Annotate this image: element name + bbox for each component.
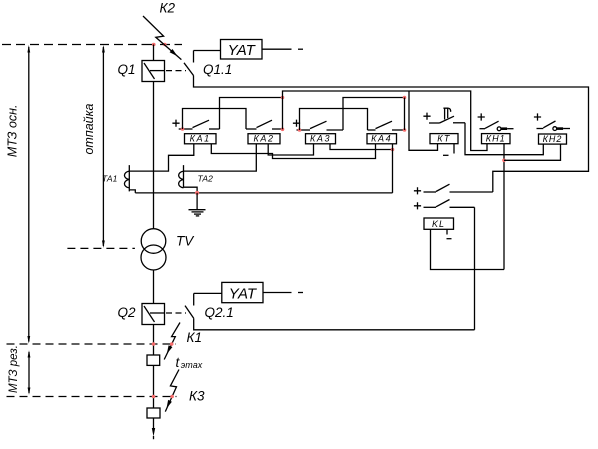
minus terminal (KT) <box>443 154 449 156</box>
wire: KH1 junction to KH2 right lead <box>504 144 561 160</box>
svg-text:отпайка: отпайка <box>82 103 96 154</box>
aux contact Q2.1 <box>185 293 194 318</box>
node: KA4 right lead junction <box>391 148 395 152</box>
node: KA1 left terminal <box>181 127 185 131</box>
trip coil YAT (Q2) <box>222 282 263 302</box>
svg-text:Q2: Q2 <box>117 305 136 320</box>
node: bus-feeder junction <box>152 43 156 47</box>
fault flash K3 <box>165 370 179 412</box>
dimension arrow MTZ rez <box>28 350 31 395</box>
node: KA2 right terminal <box>281 128 285 132</box>
time relay coil KT <box>430 134 458 144</box>
fault flash K1 <box>164 323 180 360</box>
relay coil KA2 <box>248 134 280 144</box>
wire: KA1 right lead to KA4 left lead <box>211 144 375 159</box>
wire: KA4 right terminal drop <box>404 98 406 131</box>
svg-text:КА2: КА2 <box>253 134 274 144</box>
minus terminal (YAT Q1) <box>298 48 303 50</box>
plus terminal (KL contact 1) <box>414 187 421 194</box>
contact KA1 <box>179 120 220 129</box>
svg-text:Q1.1: Q1.1 <box>203 62 232 77</box>
current transformer TA2 <box>179 165 197 193</box>
wire: YAT2 to minus terminal <box>263 292 292 294</box>
wire: CT common return <box>135 192 392 194</box>
wire: KA2 left lead to TA2 <box>184 144 257 171</box>
wire: feeder from Q1 to TV <box>153 82 155 230</box>
dashed boundary line (MTZ rez) <box>7 396 177 398</box>
svg-text:KL: KL <box>432 219 445 229</box>
node: K3 flash crossing <box>170 395 174 399</box>
busbar (dashed) <box>2 44 140 46</box>
ground <box>189 193 206 216</box>
wire: trip rail from Q1.1 around right side to KL contact <box>194 76 589 193</box>
trip coil YAT (Q1) <box>221 40 263 60</box>
minus terminal (YAT Q2) <box>298 292 303 294</box>
svg-text:КН1: КН1 <box>486 134 506 144</box>
plus terminal (KT) <box>423 113 430 120</box>
minus terminal (KL) <box>447 238 452 240</box>
node: KA3 left terminal <box>298 128 302 132</box>
relay box 2 <box>147 408 160 418</box>
plus terminal (KH2) <box>534 113 541 120</box>
svg-text:МТЗ рез.: МТЗ рез. <box>8 345 20 393</box>
mechanical link Q1 to Q1.1 <box>166 70 186 72</box>
node: feeder dashed1 crossing <box>152 342 156 346</box>
svg-text:эmax: эmax <box>181 360 203 370</box>
svg-text:TV: TV <box>176 233 195 248</box>
node: bus-K2 junction <box>163 43 167 47</box>
fault flash K2 <box>143 16 181 60</box>
wire: KL coil left lead loop to KH1 lead <box>431 229 505 269</box>
node: KA4 right bridge junction <box>403 96 407 100</box>
contact KH1 (signal relay) <box>480 121 514 131</box>
relay coil KA1 <box>185 134 217 144</box>
wire: KT right lead <box>453 144 455 154</box>
wire: feeder from bus to Q1 <box>153 45 155 61</box>
node: feeder dashed2 crossing <box>152 395 156 399</box>
wire: KA3 right lead to KA4 right lead <box>330 144 393 150</box>
wire: KA3-KA4 left bridge <box>300 109 368 131</box>
wire: feeder Q2 to end <box>153 325 155 356</box>
node: KA4 right terminal <box>403 128 407 132</box>
dimension arrow otpayka <box>102 45 105 248</box>
svg-text:КА4: КА4 <box>371 134 392 144</box>
plus terminal (KL contact 2) <box>414 202 421 209</box>
svg-text:КА1: КА1 <box>190 134 211 144</box>
wire: KL coil right lead <box>446 229 448 234</box>
wire: tap to KT coil <box>409 91 438 150</box>
wire: KA4 right lead to common <box>392 144 394 193</box>
current transformer TA1 <box>124 165 135 193</box>
wire: KA2 right lead to KA3 left lead <box>268 144 313 155</box>
intermediate relay coil KL <box>424 218 454 229</box>
dashed boundary line (MTZ osn) <box>7 343 177 345</box>
wire: KT contact output to KH2 coil <box>465 123 543 155</box>
contact KL.2 <box>424 200 475 208</box>
mechanical link Q2 to Q2.1 <box>166 312 186 314</box>
node: KH1 right lead junction <box>502 159 506 163</box>
wire: YAT to minus terminal <box>262 48 292 50</box>
svg-text:К1: К1 <box>187 330 202 345</box>
node: KA2 right terminal junction <box>281 96 285 100</box>
plus terminal (KA3/KA4 group) <box>293 120 300 127</box>
contact KA4 <box>368 121 405 130</box>
wire: KA contacts to KT coil (line-2) <box>283 91 488 151</box>
svg-text:ТА1: ТА1 <box>102 174 118 184</box>
svg-text:ТА2: ТА2 <box>198 174 214 184</box>
node: K1 flash crossing <box>170 342 174 346</box>
relay coil KA4 <box>367 134 397 144</box>
svg-text:КН2: КН2 <box>543 134 563 144</box>
breaker Q1 <box>142 61 165 82</box>
dashed line (otpayka boundary) <box>67 247 134 249</box>
wire: feeder outgoing arrow <box>152 418 155 439</box>
aux contact Q1.1 <box>184 51 194 76</box>
dimension arrow MTZ osn <box>27 45 30 344</box>
wire: KA1 left lead to TA1 <box>129 144 194 171</box>
contact KA2 <box>246 120 283 129</box>
plus terminal (KH1) <box>478 113 485 120</box>
svg-text:К2: К2 <box>160 1 176 16</box>
contact KH2 (signal relay) <box>537 121 571 131</box>
wire: Q1.1 to YAT coil <box>194 50 221 52</box>
svg-text:Q1: Q1 <box>117 62 135 77</box>
contact KA3 <box>297 121 344 130</box>
breaker Q2 <box>142 304 165 325</box>
svg-text:К3: К3 <box>189 388 205 403</box>
svg-text:YAT: YAT <box>228 42 257 59</box>
signal relay coil KH2 <box>539 134 567 144</box>
voltage transformer TV <box>141 229 166 270</box>
svg-text:Q2.1: Q2.1 <box>205 305 234 320</box>
contact KT (with time delay) <box>429 108 465 123</box>
wire: KL.2 output down to Q2 trip rail <box>474 207 476 329</box>
svg-text:КА3: КА3 <box>310 134 331 144</box>
wire: KA1-KA2 left bridge <box>183 109 247 130</box>
wire: Q2.1 to YAT coil <box>194 292 222 294</box>
wire: Q2 trip rail <box>194 318 475 330</box>
node: ground junction <box>195 191 199 195</box>
contact KL.1 <box>424 184 493 192</box>
wire: feeder between boxes <box>153 365 155 408</box>
svg-text:МТЗ осн.: МТЗ осн. <box>6 104 20 157</box>
wire: KA3-KA4 right bridge <box>343 98 405 131</box>
relay tmax box <box>147 355 160 365</box>
wire: feeder from TV to Q2 <box>153 270 155 304</box>
wire: KA1-KA2 right bridge <box>220 98 283 130</box>
relay coil KA3 <box>306 134 336 144</box>
svg-text:YAT: YAT <box>229 285 258 302</box>
wire: KH1 right lead down to KL loop <box>503 144 505 270</box>
svg-text:КТ: КТ <box>437 134 451 144</box>
plus terminal (KA1/KA2 group) <box>172 120 179 127</box>
signal relay coil KH1 <box>482 134 511 144</box>
